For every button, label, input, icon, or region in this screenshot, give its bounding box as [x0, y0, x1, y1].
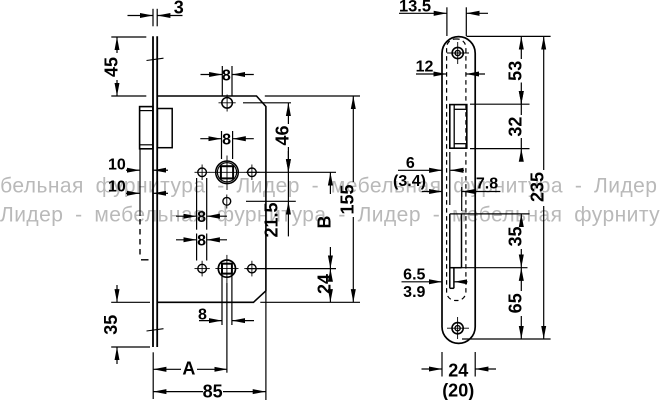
deadbolt cutout — [450, 214, 462, 288]
extension pair upper 8 (left hole column) — [176, 178, 227, 230]
svg-text:65: 65 — [505, 293, 525, 313]
dimension 235 — [543, 36, 545, 339]
svg-text:10: 10 — [108, 157, 126, 174]
dimension 3 (faceplate thickness) — [128, 9, 183, 27]
svg-text:32: 32 — [505, 117, 525, 137]
svg-text:8: 8 — [197, 209, 206, 226]
bottom screw hole (faceplate) — [447, 317, 469, 339]
svg-text:7.8: 7.8 — [476, 176, 498, 193]
dimension 24 (20) bottom — [422, 352, 497, 377]
extension: apex top (235/53) — [467, 35, 551, 37]
svg-text:85: 85 — [203, 381, 223, 400]
dimension 6 (3.4) — [398, 152, 464, 205]
svg-text:8: 8 — [222, 67, 231, 84]
dimension 53 — [520, 36, 522, 104]
left fixing hole (top row) — [195, 165, 210, 181]
svg-text:235: 235 — [528, 172, 548, 202]
dimension 10 (deadbolt projection) — [126, 192, 168, 194]
dimension 32 — [520, 94, 522, 160]
svg-text:21.5: 21.5 — [262, 202, 282, 237]
case bottom extension line (to 155) — [260, 301, 360, 303]
case top extension line (to 155) — [265, 95, 360, 97]
top screw hole (case) — [219, 95, 236, 112]
dimension 8 (follower square, above) — [200, 131, 254, 159]
lower follower extension line (to B/24) — [246, 268, 336, 270]
svg-text:(3.4): (3.4) — [393, 173, 426, 190]
svg-text:12: 12 — [416, 58, 434, 75]
faceplate (side view, two vertical lines) — [153, 36, 157, 347]
svg-text:A: A — [182, 359, 195, 379]
svg-text:35: 35 — [101, 315, 121, 335]
dimension 8 (top screw hole) — [201, 66, 254, 96]
dimension 12 — [416, 73, 485, 75]
right fixing hole (top row) — [244, 165, 259, 181]
svg-text:8: 8 — [198, 307, 207, 324]
dimension 6.5/3.9 — [402, 281, 468, 283]
latch cutout — [450, 105, 467, 149]
dimension A — [153, 352, 227, 399]
svg-text:B: B — [314, 216, 334, 229]
centre line through lower follower — [226, 283, 228, 373]
svg-text:13.5: 13.5 — [399, 0, 431, 16]
svg-text:35: 35 — [505, 226, 525, 246]
dimension 46 — [287, 103, 289, 173]
svg-text:3.9: 3.9 — [403, 284, 425, 301]
svg-text:(20): (20) — [442, 380, 474, 400]
dimension 24 (left view) — [329, 269, 331, 303]
hole extension line (top screw, to 46) — [243, 102, 291, 104]
right fixing hole (bottom row) — [244, 261, 259, 277]
top screw hole (faceplate) — [447, 42, 469, 64]
deadbolt extension line (solid) — [139, 149, 141, 216]
follower (spindle hub) — [210, 156, 245, 191]
svg-text:3: 3 — [174, 0, 184, 18]
faceplate centre tick top — [147, 58, 164, 60]
dimension 13.5 — [399, 7, 488, 36]
follower extension line (to B/155) — [246, 171, 336, 173]
lower follower square extension lines — [222, 274, 232, 325]
faceplate centre tick bottom — [147, 329, 164, 331]
extension pair lower 8 (left hole column) — [176, 234, 227, 261]
extension: deadbolt cutout top — [450, 213, 530, 215]
dimension 35 (right view) — [520, 214, 522, 268]
lock case outline — [157, 96, 266, 302]
svg-text:24: 24 — [314, 274, 334, 294]
extension: deadbolt cutout bottom — [450, 267, 528, 269]
left fixing hole (bottom row) — [195, 261, 210, 277]
dimension 65 — [520, 268, 522, 339]
deadbolt dashed bottom — [141, 259, 149, 261]
dimension 10 (latch projection) — [126, 169, 168, 171]
small hole extension line (to 21.5) — [246, 200, 296, 202]
svg-text:46: 46 — [272, 125, 292, 145]
dimension 85 — [153, 291, 266, 400]
svg-text:155: 155 — [337, 184, 357, 214]
hidden lock case (dashed) — [447, 39, 466, 301]
dimension 21.5 — [287, 151, 289, 236]
small hole below follower — [223, 195, 231, 209]
dimension B — [329, 172, 331, 268]
dimension 35 (left bottom) — [111, 285, 150, 364]
svg-text:6: 6 — [406, 155, 415, 172]
faceplate (front view, stadium outline) — [442, 37, 475, 344]
dimension 155 — [352, 96, 354, 302]
extension: faceplate bottom (65/235) — [462, 338, 551, 340]
deadbolt thrown (dashed) — [139, 219, 141, 258]
svg-text:10: 10 — [108, 179, 126, 196]
dimension 7.8 — [422, 187, 501, 211]
extension: latch cutout bottom — [470, 148, 530, 150]
svg-text:24: 24 — [448, 360, 468, 380]
svg-text:Мебельная фурнитура - Лидер -: Мебельная фурнитура - Лидер - мебельная … — [0, 175, 657, 198]
dimension 8 (below case, square) — [199, 320, 254, 322]
lower follower (WC square) — [215, 255, 238, 283]
dimension 45 (left) — [111, 37, 146, 96]
extension: latch cutout top — [470, 103, 530, 105]
svg-text:45: 45 — [102, 57, 122, 77]
svg-text:53: 53 — [505, 61, 525, 81]
latch bolt tail — [157, 109, 172, 148]
svg-text:8: 8 — [222, 132, 231, 149]
svg-text:8: 8 — [197, 233, 206, 250]
svg-text:6.5: 6.5 — [403, 267, 425, 284]
latch bolt head — [140, 107, 153, 149]
